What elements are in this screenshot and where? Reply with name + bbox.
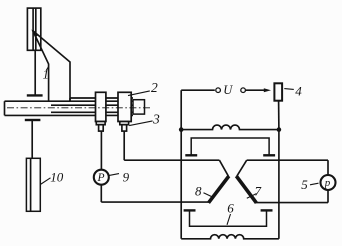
shaft left end <box>4 101 6 115</box>
supply wire left <box>181 89 215 91</box>
bottom yoke <box>190 211 267 226</box>
svg-text:4: 4 <box>295 84 302 99</box>
svg-text:1: 1 <box>43 67 50 82</box>
lever pointer right arm <box>33 31 70 101</box>
label 6 leader <box>227 214 231 225</box>
label 4 leader <box>284 88 294 91</box>
arrow wire to rheostat 4 <box>246 89 266 91</box>
bridge top edge with winding <box>181 125 279 130</box>
wire meter 9 to core 8 <box>101 201 209 203</box>
slot line right <box>35 8 37 50</box>
stem collar right <box>120 122 129 125</box>
label 7 leader <box>247 194 257 199</box>
label 9 leader <box>109 174 119 176</box>
bridge right edge <box>278 130 280 239</box>
svg-text:9: 9 <box>123 169 130 184</box>
core 8 pole face (thick) <box>209 176 229 203</box>
shaft end stub <box>133 100 145 114</box>
wire block2 to meter 9 <box>100 131 102 170</box>
svg-text:6: 6 <box>227 200 234 215</box>
sleeve top line <box>70 97 133 99</box>
wire block3 to core 8 <box>124 159 219 161</box>
svg-text:3: 3 <box>152 111 160 126</box>
wire meter 5 top <box>327 160 329 175</box>
slot line left <box>32 8 34 50</box>
supply wire down <box>180 90 182 129</box>
junction dot right <box>277 127 282 132</box>
stem square right <box>122 125 127 131</box>
stem square left <box>99 125 104 131</box>
lever pivot dark wedge <box>31 29 38 37</box>
svg-text:p: p <box>324 177 331 189</box>
junction dot left <box>179 127 184 132</box>
shaft top edge <box>5 100 134 102</box>
svg-text:U: U <box>223 83 233 97</box>
top yoke left pole tick <box>185 154 197 156</box>
shaft centerline <box>7 107 152 109</box>
bridge left edge <box>180 130 182 239</box>
label 3 leader <box>129 121 152 126</box>
svg-text:2: 2 <box>151 80 158 95</box>
shaft bottom edge <box>5 114 134 116</box>
sleeve inner line upper <box>51 104 133 106</box>
svg-text:8: 8 <box>195 184 202 199</box>
bridge bottom edge with winding <box>181 235 279 239</box>
meter P5 <box>321 175 336 190</box>
lower support tick <box>25 119 41 121</box>
sensor block 3 body <box>118 92 131 121</box>
scale bracket (top rectangle, item 1 scale) <box>27 8 40 50</box>
wire block3 down <box>123 131 125 160</box>
sleeve step <box>69 98 71 101</box>
sensor block 2 <box>96 92 106 121</box>
wire core 7 to meter 5 bottom <box>256 202 328 204</box>
core 8 upper diagonal <box>219 160 228 176</box>
meter P9 <box>94 170 109 185</box>
arrow head <box>264 88 271 92</box>
stem collar left <box>96 122 105 125</box>
top yoke right pole tick <box>263 154 275 156</box>
wire meter 9 down <box>100 185 102 202</box>
wire core 7 to meter 5 top <box>247 159 328 161</box>
label 2 leader <box>128 91 150 96</box>
lever pointer left arm (item 1) <box>33 31 49 101</box>
svg-text:7: 7 <box>255 184 262 199</box>
core 7 upper diagonal <box>237 160 247 176</box>
label 8 leader <box>204 193 214 198</box>
svg-text:P: P <box>97 172 105 184</box>
plate 10 inner line <box>30 158 32 211</box>
plate 10 <box>26 158 40 211</box>
lower support stem <box>31 120 33 158</box>
svg-text:5: 5 <box>301 177 308 192</box>
wire meter 5 bottom <box>327 190 329 203</box>
svg-text:10: 10 <box>50 170 64 185</box>
upper support stem <box>34 50 36 95</box>
top yoke <box>191 138 269 155</box>
upper support tick <box>27 94 43 96</box>
label 1 leader <box>46 67 48 71</box>
terminal circle left <box>216 88 221 93</box>
bottom yoke right pole tick <box>261 209 273 211</box>
rheostat 4 <box>274 83 282 100</box>
terminal circle right <box>241 88 246 93</box>
core 7 pole face (thick) <box>236 176 256 203</box>
wire rheostat down <box>278 101 280 130</box>
sleeve inner line lower <box>51 111 133 113</box>
label 5 leader <box>310 183 319 185</box>
label 10 leader <box>40 178 50 185</box>
bottom yoke left pole tick <box>184 209 196 211</box>
